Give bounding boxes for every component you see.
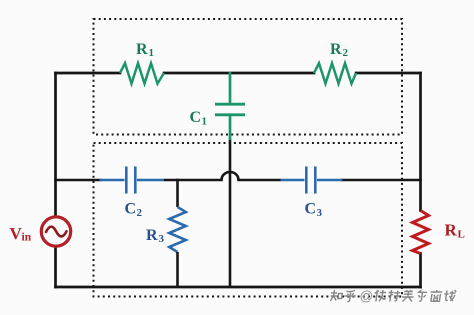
label C2: [125, 201, 143, 220]
capacitor C3 right lead: [317, 179, 343, 182]
resistor R2: [314, 63, 356, 83]
wire top rail middle segment: [164, 72, 314, 75]
source Vin sine wave: [46, 227, 67, 237]
label R1: [136, 41, 154, 59]
capacitor C3 plates: [306, 167, 315, 194]
wire center branch (C1 to bottom rail, black part): [229, 139, 232, 287]
svg-text:R: R: [330, 41, 342, 58]
wire middle rail segment C2 to hop with crossover bump: [164, 172, 282, 180]
label R3: [146, 227, 165, 245]
svg-text:1: 1: [149, 47, 155, 59]
watermark 尔: [416, 290, 427, 301]
svg-text:2: 2: [343, 47, 349, 59]
capacitor C2 plates: [126, 167, 135, 194]
wire top rail right segment: [356, 72, 421, 75]
capacitor C1 bottom lead: [229, 116, 232, 140]
watermark @: [360, 289, 374, 304]
svg-text:L: L: [458, 229, 465, 241]
source Vin circle: [41, 217, 70, 246]
svg-text:C: C: [305, 201, 317, 218]
svg-text:R: R: [136, 41, 148, 58]
watermark 特: [387, 290, 400, 302]
wire middle rail right segment: [342, 179, 421, 182]
dashed box lower T-network: [94, 143, 403, 297]
svg-text:@: @: [360, 289, 374, 304]
watermark 城: [443, 290, 456, 301]
capacitor C3 left lead: [281, 179, 305, 182]
wire middle rail left segment: [56, 179, 101, 182]
resistor RL zigzag: [413, 211, 429, 254]
label C3: [305, 201, 323, 220]
watermark 美: [401, 290, 414, 302]
svg-text:C: C: [190, 109, 202, 126]
watermark 知: [330, 290, 343, 301]
watermark 乎: [343, 291, 356, 302]
label RL: [445, 221, 465, 241]
resistor R3 zigzag: [169, 207, 186, 252]
label Vin: [10, 224, 32, 244]
svg-text:2: 2: [137, 207, 143, 219]
watermark 优: [373, 290, 386, 302]
wire top rail left segment: [56, 72, 121, 75]
resistor R3 bottom lead: [176, 252, 179, 287]
wire left rail upper (Vin top lead): [54, 73, 57, 217]
resistor R3 top lead: [176, 179, 179, 207]
svg-text:R: R: [146, 227, 158, 244]
svg-text:3: 3: [159, 233, 165, 245]
resistor R1: [120, 63, 164, 83]
svg-text:3: 3: [317, 207, 323, 219]
svg-text:in: in: [22, 232, 32, 244]
dashed box upper T-network: [94, 19, 403, 135]
capacitor C2 left lead: [100, 179, 125, 182]
capacitor C1 (top lead): [229, 72, 232, 103]
wire right rail lower (RL bottom lead): [419, 254, 422, 288]
label C1: [190, 109, 208, 128]
svg-text:R: R: [445, 221, 458, 240]
svg-text:1: 1: [202, 116, 208, 128]
wire bottom rail: [56, 286, 421, 289]
wire right rail upper (RL top lead): [419, 73, 422, 211]
capacitor C2 right lead: [137, 179, 164, 182]
label R2: [330, 41, 349, 59]
watermark 商: [429, 290, 442, 302]
capacitor C1 plates: [215, 104, 245, 115]
svg-text:C: C: [125, 201, 137, 218]
wire left rail lower (Vin bottom lead): [54, 247, 57, 288]
